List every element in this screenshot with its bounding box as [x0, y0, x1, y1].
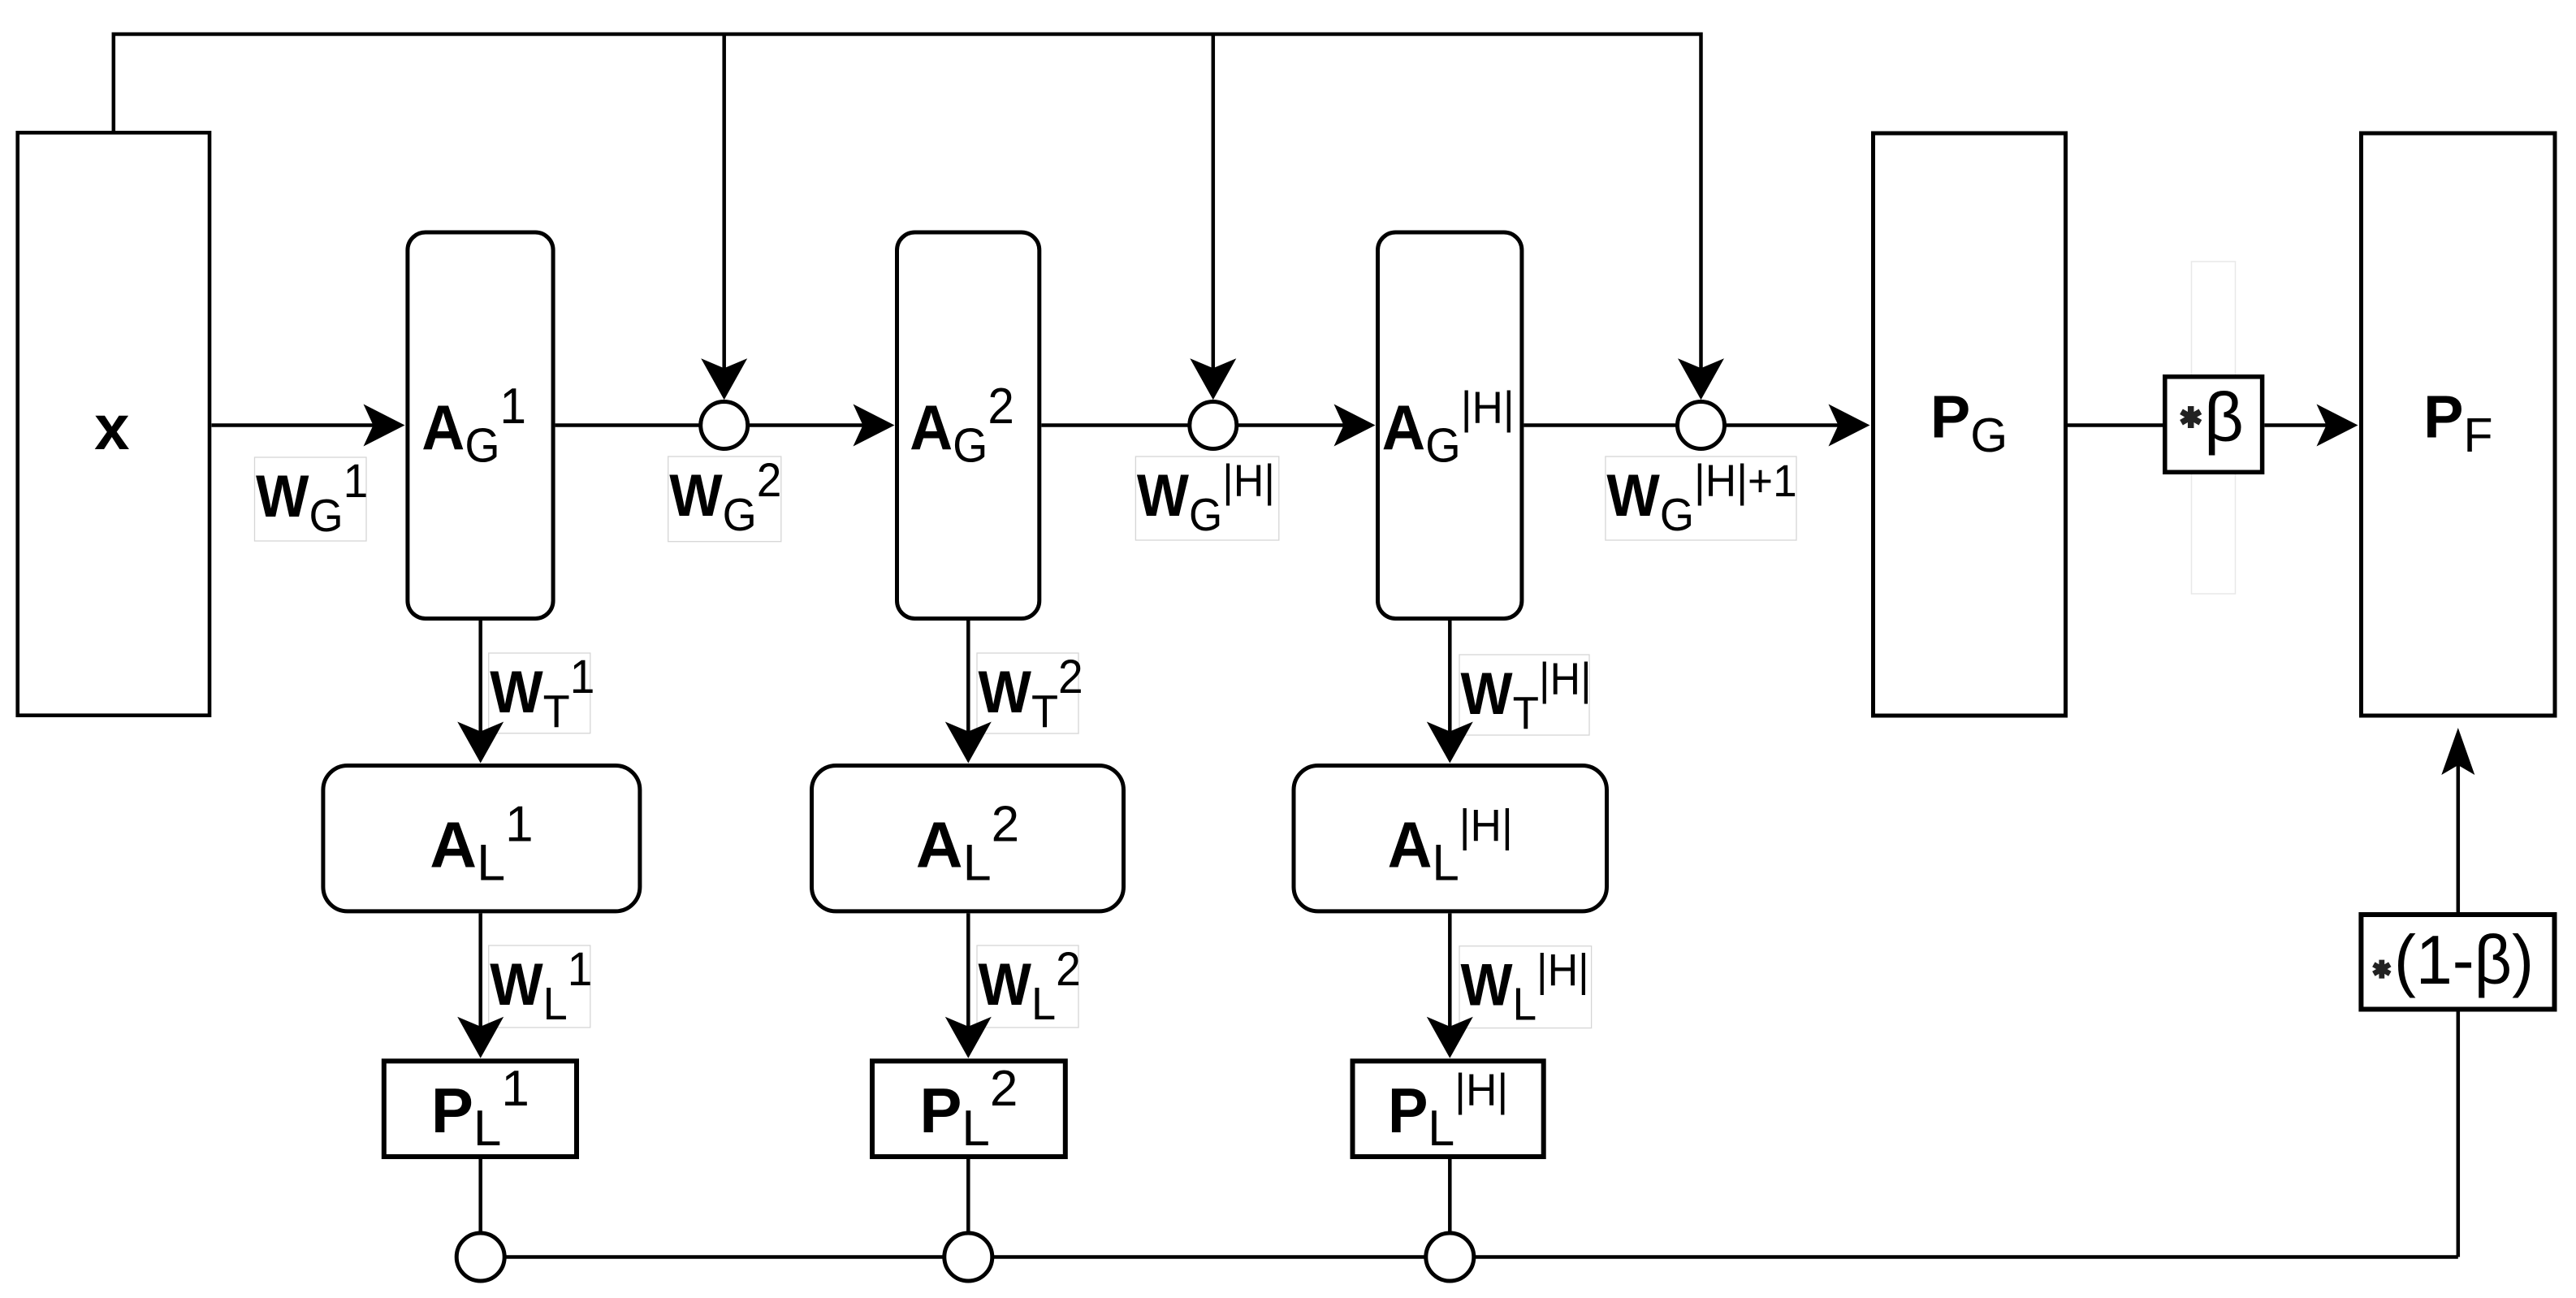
wire junction 1 to AG2	[750, 405, 895, 447]
wire junction 3 to PG	[1726, 405, 1869, 447]
label WG1	[255, 455, 369, 542]
riser wire to PF	[2441, 728, 2474, 912]
bottom bus wire	[481, 1255, 2458, 1259]
wire PL|H| to bus	[1448, 1159, 1452, 1233]
block PL|H|	[1353, 1061, 1544, 1157]
label WG|H|	[1135, 456, 1278, 540]
wire x to AG1	[212, 405, 405, 447]
wire PG to *beta	[2068, 423, 2164, 427]
block AL2	[812, 766, 1124, 911]
wire AL1 to PL1	[457, 913, 504, 1058]
junction node 3	[1678, 402, 1725, 449]
wire AG|H| to AL|H|	[1427, 621, 1473, 764]
label WT1	[489, 651, 595, 738]
label WL|H|	[1459, 945, 1592, 1030]
block AG1	[408, 232, 553, 619]
block PG	[1874, 133, 2066, 716]
block PL2	[872, 1061, 1065, 1157]
wire *beta to PF	[2264, 405, 2358, 447]
wire AG1 to junction 1	[555, 423, 699, 427]
wire PL2 to bus	[966, 1159, 970, 1233]
operator *(1-beta)	[2361, 915, 2554, 1010]
feedback drop to junction 2	[1190, 34, 1236, 400]
wire junction 2 to AG|H|	[1238, 405, 1376, 447]
bus node 1	[456, 1233, 504, 1281]
label WG|H|+1	[1606, 456, 1797, 541]
block PF	[2362, 133, 2556, 716]
operator *beta	[2165, 377, 2263, 473]
svg-text:(1-β): (1-β)	[2394, 922, 2534, 999]
block PL1	[384, 1061, 577, 1157]
block AL1	[323, 766, 640, 911]
svg-text:β: β	[2204, 379, 2244, 456]
bus node 3	[1426, 1233, 1474, 1281]
junction node 2	[1190, 402, 1237, 449]
block AG2	[897, 232, 1039, 619]
block x input	[18, 132, 210, 715]
wire AG2 to junction 2	[1041, 423, 1188, 427]
label WL1	[489, 943, 593, 1030]
scale guide bar	[2192, 262, 2236, 594]
label WT2	[977, 651, 1083, 738]
wire PL1 to bus	[478, 1159, 482, 1233]
wire AG|H| to junction 3	[1524, 423, 1676, 427]
feedback wire top	[114, 34, 1724, 400]
label WG2	[668, 454, 782, 542]
block AG|H|	[1378, 232, 1522, 619]
wire AL2 to PL2	[945, 913, 992, 1058]
feedback drop to junction 1	[701, 34, 747, 400]
svg-text:x: x	[94, 392, 129, 463]
wire AG2 to AL2	[945, 621, 992, 764]
label WL2	[977, 943, 1081, 1030]
label WT|H|	[1459, 654, 1592, 738]
junction node 1	[701, 402, 748, 449]
wire AL|H| to PL|H|	[1427, 913, 1473, 1058]
riser wire to *(1-beta)	[2457, 1012, 2461, 1257]
wire AG1 to AL1	[457, 621, 504, 764]
block AL|H|	[1294, 766, 1607, 911]
bus node 2	[944, 1233, 992, 1281]
